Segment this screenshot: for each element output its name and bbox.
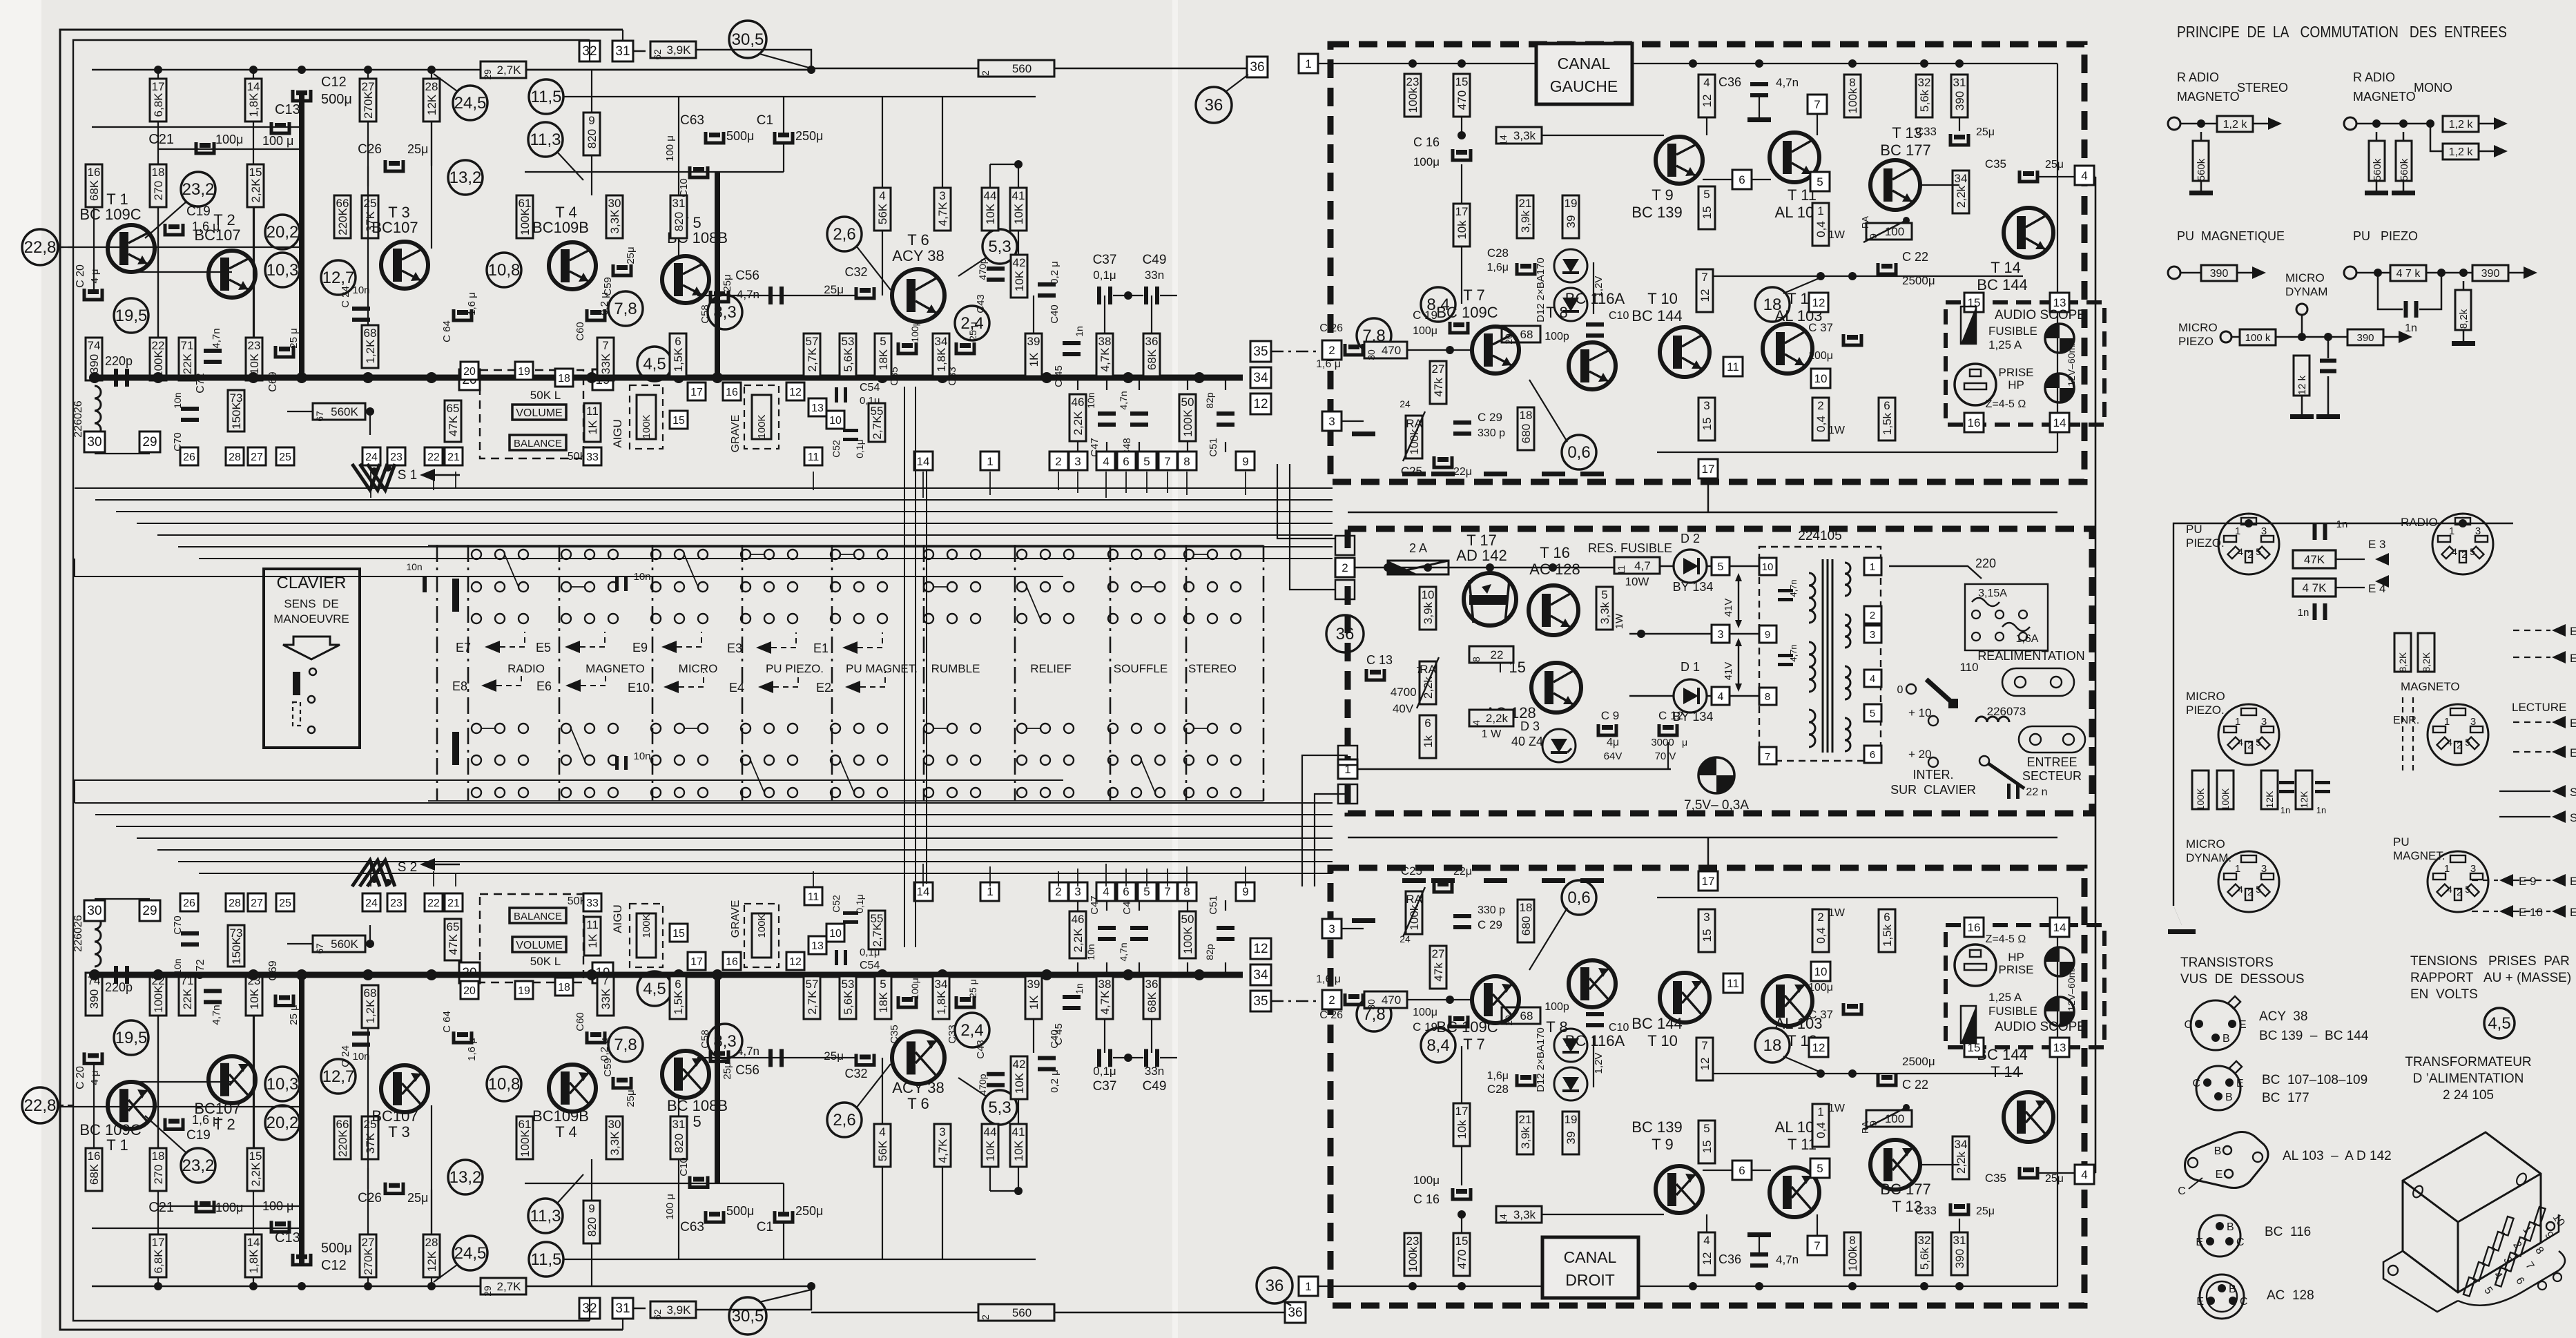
svg-text:T 2: T 2 (213, 1116, 235, 1133)
contact MICRO b1 c0 r1 (651, 755, 661, 765)
wire drop term 1533 top (1058, 472, 1059, 490)
svg-text:T 3: T 3 (388, 1123, 409, 1141)
wire contact link MICRO 1 (684, 728, 698, 729)
wire contact link MAGNETO 0 (571, 586, 585, 588)
svg-text:T 7: T 7 (1463, 287, 1484, 304)
wire C36 down (canal gauche) (1759, 97, 1760, 117)
svg-text:3,3k: 3,3k (1513, 129, 1536, 142)
terminal 13b (bottom) (808, 936, 826, 954)
contact RUMBLE b1 c1 r1 (947, 755, 957, 765)
wire col 367 (top) (253, 70, 254, 378)
cap C24 (top) (352, 307, 370, 311)
svg-text:C33: C33 (947, 1025, 958, 1044)
node 15-14 (canal droit) (1458, 1210, 1466, 1219)
svg-text:39: 39 (1565, 1132, 1578, 1145)
svg-text:MAGNETO: MAGNETO (2401, 680, 2460, 693)
svg-text:PRISE: PRISE (1998, 963, 2033, 976)
wire contact link MICRO 0 (684, 554, 698, 587)
wire E5 dash (580, 632, 605, 647)
svg-text:74: 74 (88, 339, 101, 352)
svg-text:4: 4 (879, 1125, 885, 1138)
node 67 top (366, 407, 374, 416)
svg-text:9: 9 (1242, 455, 1248, 468)
svg-text:C21: C21 (148, 1200, 174, 1215)
svg-text:39: 39 (1565, 215, 1578, 229)
wire 30,5 diag top (759, 54, 811, 68)
svg-text:CLAVIER: CLAVIER (277, 574, 347, 592)
icon key circle 3 (308, 726, 315, 733)
cap C21 100u (top) (196, 142, 214, 153)
contact PU MAGNET. b1 c0 r0 (831, 724, 840, 733)
pot RA9 100 (canal droit) (1866, 1110, 1912, 1127)
contact RELIEF b0 c1 r2 (1040, 614, 1050, 623)
svg-text:5,3: 5,3 (988, 237, 1011, 256)
circle 7,8 (canal droit) (1357, 997, 1391, 1031)
arrow E2 (845, 681, 860, 693)
svg-text:23: 23 (1406, 75, 1420, 88)
contact STEREO b0 c0 r1 (1184, 582, 1194, 592)
contact STEREO b1 c1 r2 (1208, 788, 1217, 797)
wire E1 dash (2513, 880, 2550, 881)
wire sockets frame top (2173, 523, 2513, 906)
terminal 6 row (bottom) (1117, 882, 1136, 901)
svg-text:23: 23 (248, 339, 261, 352)
pot GRAVE res (bottom) (752, 913, 771, 958)
contact MAGNETO b0 c1 r0 (585, 550, 594, 559)
svg-text:MAGNETO: MAGNETO (585, 662, 645, 675)
svg-text:56K: 56K (876, 203, 889, 224)
svg-text:C10: C10 (678, 178, 690, 197)
svg-text:PU MAGNET.: PU MAGNET. (846, 662, 918, 675)
svg-text:20: 20 (463, 985, 476, 997)
svg-text:2: 2 (1817, 399, 1823, 412)
pinout BC116 (2199, 1215, 2240, 1257)
wire rail2 (bottom) (92, 1228, 302, 1229)
svg-text:13,2: 13,2 (449, 1168, 482, 1187)
svg-text:C43: C43 (975, 294, 987, 313)
cap C49 (bottom) (1144, 1049, 1148, 1067)
svg-text:22 n: 22 n (2026, 786, 2047, 798)
wire drop term 1691 top (1167, 472, 1168, 493)
wire 8,2k (2463, 281, 2465, 290)
wire 2,6 diag (bottom) (856, 1064, 891, 1108)
svg-text:42: 42 (1013, 1058, 1026, 1071)
svg-text:B: B (2214, 1145, 2222, 1157)
audioscope box (canal gauche) (1946, 302, 2104, 425)
contact MAGNETO b1 c2 r1 (608, 755, 618, 765)
svg-text:270: 270 (152, 181, 165, 200)
contact PU MAGNET. b0 c1 r1 (854, 582, 864, 592)
wire top line y101 to 30,5 (526, 69, 811, 70)
wire col 437 thick (bottom) (299, 975, 304, 1265)
terminal 17 out (canal gauche) (1698, 459, 1718, 478)
svg-text:2: 2 (980, 1315, 991, 1320)
wire col 1135 (bottom) (783, 1223, 784, 1259)
wire 2,6 diag (top) (856, 246, 891, 290)
resistor 4 56K (bottom) (874, 1124, 891, 1167)
cap C10 (canal droit) (1586, 1012, 1604, 1016)
svg-text:100μ: 100μ (1808, 982, 1833, 993)
svg-text:0,1μ: 0,1μ (1093, 1065, 1116, 1078)
svg-text:2,6: 2,6 (833, 1111, 855, 1129)
svg-text:E6: E6 (2570, 746, 2576, 759)
svg-text:8: 8 (1183, 885, 1190, 898)
node rail bottom (154, 1282, 162, 1290)
contact MAGNETO b1 c0 r2 (561, 788, 571, 797)
node rail7 (canal droit) (1955, 1282, 1964, 1290)
svg-text:C21: C21 (148, 132, 174, 147)
svg-text:34: 34 (935, 978, 948, 991)
contact RADIO b1 c0 r1 (472, 755, 481, 765)
svg-text:1: 1 (1305, 57, 1311, 70)
svg-text:2: 2 (1817, 911, 1823, 924)
svg-text:RADIO: RADIO (507, 662, 545, 675)
resistor 68 1,2K (top) (362, 325, 378, 368)
svg-text:25μ: 25μ (625, 1089, 637, 1107)
contact SOUFFLE b0 c0 r1 (1108, 582, 1118, 592)
sel box psu (1965, 584, 2048, 650)
separator col 810 (559, 545, 561, 801)
circle 20,2 (bottom) (265, 1105, 300, 1140)
svg-text:25μ: 25μ (722, 274, 733, 291)
svg-text:3,3K: 3,3K (608, 209, 621, 234)
circle 30,5 top (729, 21, 766, 58)
svg-text:2,2k: 2,2k (1422, 676, 1435, 699)
terminal 6 mid (canal droit) (1732, 1161, 1752, 1180)
dashed border CANAL (canal gauche) (1330, 44, 2084, 482)
contact PU MAGNET. b0 c0 r1 (831, 582, 840, 592)
contact RELIEF b1 c1 r2 (1040, 788, 1050, 797)
svg-text:C 37: C 37 (1808, 1008, 1833, 1021)
contact RELIEF b0 c0 r1 (1017, 582, 1027, 592)
circle 19,5 (top) (114, 298, 148, 333)
wire 14 to T9 (canal gauche) (1542, 135, 1664, 136)
terminal 9 row (top) (1236, 452, 1255, 470)
terminal 7 tr (1759, 747, 1776, 764)
contact RUMBLE b0 c0 r1 (924, 582, 933, 592)
svg-text:1,2K: 1,2K (364, 999, 377, 1024)
svg-text:12: 12 (1812, 296, 1826, 309)
wire 4-T9 (canal droit) (1706, 1214, 1707, 1232)
resistor 23 10K (bottom) (246, 973, 262, 1016)
wire E7 dash (2513, 657, 2550, 658)
node midrail2 (canal droit) (1848, 1069, 1857, 1078)
wire col 1135b (bottom) (783, 1183, 784, 1212)
terminal 20r top (461, 362, 478, 380)
svg-text:100K: 100K (519, 207, 532, 235)
node 47k b (2459, 269, 2468, 277)
svg-text:5,6K: 5,6K (842, 990, 855, 1015)
svg-text:1n: 1n (1074, 983, 1085, 994)
transistor T1 BC109C (top) (108, 225, 155, 272)
arrow E4 (758, 681, 773, 693)
svg-text:14: 14 (1498, 135, 1509, 146)
svg-text:1,8K: 1,8K (935, 990, 948, 1015)
svg-text:ACY 38: ACY 38 (892, 247, 944, 264)
contact MAGNETO b0 c2 r2 (608, 614, 618, 623)
svg-text:100 k: 100 k (2245, 332, 2271, 344)
terminal 10 mid (canal gauche) (1811, 369, 1830, 388)
wire res col 368 (top) (253, 207, 255, 338)
contact SOUFFLE b1 c0 r1 (1108, 755, 1118, 765)
contact PU MAGNET. b1 c0 r2 (831, 788, 840, 797)
contact RUMBLE b1 c0 r1 (924, 755, 933, 765)
wire piezo drop (2248, 514, 2249, 523)
svg-text:2: 2 (1055, 455, 1061, 468)
res fusible 11 4,7 (1614, 557, 1660, 574)
cap C19 (canal gauche) (1450, 322, 1468, 333)
contact PU PIEZO. b1 c2 r2 (788, 788, 797, 797)
cap C64 (top) (454, 309, 472, 320)
pot GRAVE res (top) (752, 395, 771, 439)
svg-text:11,3: 11,3 (530, 130, 561, 149)
wire md drop (2301, 315, 2303, 337)
svg-text:19,5: 19,5 (115, 307, 148, 325)
svg-text:0,1μ: 0,1μ (1093, 269, 1116, 282)
contact PU MAGNET. b1 c2 r1 (878, 755, 887, 765)
svg-text:31: 31 (672, 1118, 686, 1131)
svg-text:25μ: 25μ (824, 283, 844, 296)
wire trunk left bottom (75, 780, 1063, 803)
svg-text:50K L: 50K L (530, 955, 561, 968)
wire E3 dash (771, 632, 796, 648)
wire drop term 1631 top (1125, 472, 1127, 493)
resistor 65 47K top (445, 400, 461, 442)
svg-text:11: 11 (808, 891, 820, 903)
svg-text:15: 15 (1701, 206, 1714, 220)
svg-text:25 μ: 25 μ (288, 328, 300, 349)
svg-text:1,2 k: 1,2 k (2449, 146, 2474, 158)
contact PU PIEZO. b0 c0 r2 (741, 614, 750, 623)
contact RADIO b0 c2 r1 (519, 582, 528, 592)
wire bundle bottom 0 (75, 802, 1333, 804)
text E5 arrow (2552, 716, 2566, 728)
svg-text:3: 3 (1718, 629, 1724, 641)
svg-text:4,7n: 4,7n (737, 1045, 759, 1058)
resistor 5 15 (canal droit) (1698, 1121, 1715, 1163)
node 30,5 top (807, 66, 815, 74)
svg-text:8,4: 8,4 (1426, 1036, 1449, 1055)
svg-text:25μ: 25μ (1976, 1205, 1995, 1217)
circle 5,3 (bottom) (982, 1090, 1017, 1125)
svg-text:4: 4 (2238, 737, 2243, 748)
svg-text:18: 18 (558, 982, 570, 993)
svg-text:150K: 150K (230, 936, 243, 964)
contact PU MAGNET. b1 c2 r0 (878, 724, 887, 733)
svg-text:25μ: 25μ (824, 1049, 844, 1063)
wire contact link RUMBLE 1 (933, 728, 947, 729)
circle 7,8 (top) (608, 291, 643, 326)
resistor 42 10K (top) (1011, 255, 1027, 298)
svg-text:3: 3 (2261, 525, 2267, 537)
contact RUMBLE b0 c2 r1 (971, 582, 980, 592)
wire drop term 1178 top (813, 472, 814, 490)
svg-text:C49: C49 (1143, 1079, 1167, 1094)
resistor 21 3,9k (canal droit) (1517, 1112, 1533, 1154)
wire 1668 to upper net top (1151, 295, 1152, 333)
terminal 23r bottom (387, 893, 405, 911)
svg-text:E 9: E 9 (2519, 875, 2537, 888)
svg-text:26: 26 (183, 898, 195, 909)
switch S2 (352, 860, 380, 886)
node psu rail (1384, 563, 1392, 572)
svg-text:5: 5 (2256, 546, 2261, 557)
resistor 28 12K (bottom) (423, 1234, 440, 1277)
wire 35 dashdot top (1271, 351, 1319, 352)
res 47K sock b (2293, 579, 2336, 597)
resistor 57 2,7K busrow bottom (804, 976, 820, 1019)
wire col 983b (bottom) (678, 1098, 679, 1116)
svg-text:23: 23 (390, 898, 403, 909)
text E7 arrow (2552, 651, 2566, 663)
svg-text:15: 15 (249, 1150, 262, 1163)
svg-text:4,7K: 4,7K (1098, 990, 1112, 1015)
svg-text:15: 15 (1701, 1141, 1714, 1154)
contact PU PIEZO. b0 c0 r0 (741, 550, 750, 559)
svg-text:2,2K: 2,2K (249, 1162, 262, 1187)
contact PU MAGNET. b0 c0 r2 (831, 614, 840, 623)
wire col 367 (bottom) (253, 975, 254, 1286)
wire 22,8 dash (bottom) (57, 1106, 107, 1107)
contact RUMBLE b0 c0 r0 (924, 550, 933, 559)
svg-text:4,7n: 4,7n (211, 328, 222, 348)
svg-text:47K: 47K (447, 933, 460, 955)
contact RELIEF b0 c0 r0 (1017, 550, 1027, 559)
wire canal left col a (1277, 464, 1335, 539)
node rail3 (canal gauche) (1689, 59, 1697, 68)
svg-text:E 3: E 3 (2368, 538, 2386, 551)
transistor T3 BC107 (top) (381, 242, 428, 289)
svg-text:1n: 1n (2280, 805, 2290, 815)
resistor 61 100K (bottom) (516, 1116, 533, 1159)
svg-text:4: 4 (2081, 169, 2087, 182)
svg-text:10n: 10n (352, 284, 369, 296)
terminal 30 bottom (84, 900, 105, 921)
resistor 50 100K (bottom) (1179, 911, 1196, 958)
svg-text:CANAL: CANAL (1564, 1248, 1617, 1266)
svg-text:44: 44 (984, 189, 997, 202)
svg-text:RAPPORT AU + (MASSE): RAPPORT AU + (MASSE) (2410, 971, 2571, 985)
contact STEREO b1 c2 r2 (1231, 788, 1241, 797)
contact RELIEF b0 c0 r2 (1017, 614, 1027, 623)
svg-text:10n: 10n (172, 958, 183, 974)
svg-text:1W: 1W (1828, 229, 1846, 241)
contact RADIO b1 c2 r1 (519, 755, 528, 765)
svg-text:12: 12 (1698, 289, 1712, 302)
svg-text:4 μ: 4 μ (89, 1070, 101, 1085)
wire crosslink a (904, 387, 905, 947)
dash cluster magneto (2402, 697, 2403, 773)
wire C35-4 (canal gauche) (2037, 176, 2074, 177)
svg-text:13: 13 (2053, 1041, 2066, 1054)
wire col 625 mid (top) (431, 122, 432, 249)
wire contact link STEREO 1 (1194, 728, 1208, 729)
terminal 17 out (canal droit) (1698, 871, 1718, 891)
wire 4-8 (1730, 695, 1759, 697)
svg-text:3: 3 (2470, 863, 2476, 875)
wire 1n loop (2378, 273, 2403, 309)
svg-text:1: 1 (1817, 204, 1823, 217)
contact STEREO b1 c0 r0 (1184, 724, 1194, 733)
svg-text:19: 19 (1565, 1113, 1578, 1126)
svg-text:PU: PU (2393, 835, 2410, 849)
contact RUMBLE b1 c1 r0 (947, 724, 957, 733)
svg-text:4: 4 (2447, 884, 2452, 895)
svg-text:100K: 100K (756, 414, 768, 438)
resistor 27 47k (canal gauche) (1430, 361, 1446, 404)
svg-text:10: 10 (1814, 965, 1828, 978)
cap C48 (top) (1130, 411, 1148, 416)
svg-text:22,8: 22,8 (24, 238, 57, 257)
svg-text:C19: C19 (186, 1128, 211, 1143)
node rail (canal gauche) (1408, 59, 1417, 68)
svg-text:C54: C54 (860, 382, 880, 394)
svg-text:12: 12 (1812, 1041, 1826, 1054)
svg-text:3,9k: 3,9k (1519, 1126, 1532, 1149)
svg-text:7,8: 7,8 (614, 300, 637, 318)
arrow 41V b (1738, 642, 1739, 688)
prise plates (canal gauche) (1970, 369, 1981, 376)
terminal 2 row (top) (1049, 452, 1068, 470)
svg-text:10,8: 10,8 (488, 1075, 521, 1094)
wire C35-4 (canal droit) (2037, 1172, 2074, 1174)
svg-text:3,3k: 3,3k (1513, 1208, 1536, 1221)
res 390 b (2472, 265, 2508, 281)
svg-text:17: 17 (690, 387, 703, 398)
contact PU PIEZO. b1 c0 r2 (741, 788, 750, 797)
wire 560-line top (811, 68, 1247, 69)
svg-text:T 1: T 1 (106, 1136, 128, 1154)
svg-text:680: 680 (1520, 916, 1533, 935)
wire 15-14 (canal gauche) (1461, 117, 1462, 135)
contact RADIO b1 c0 r0 (472, 724, 481, 733)
transistor T12 AL103 (canal gauche) (1763, 324, 1812, 374)
wire drop 57 top (811, 376, 813, 378)
contact SOUFFLE b0 c0 r2 (1108, 614, 1118, 623)
svg-text:5: 5 (1817, 1162, 1823, 1175)
resistor 4 12 (canal gauche) (1698, 75, 1715, 117)
contact RUMBLE b1 c2 r1 (971, 755, 980, 765)
circle 4,5 (bottom) (637, 971, 672, 1006)
res 560k a (2193, 141, 2209, 181)
wire col 857 (bottom) (591, 1243, 592, 1286)
svg-text:HP: HP (2008, 378, 2024, 391)
separator col 678 (467, 545, 469, 801)
resistor 29 2,7K bottom (481, 1278, 526, 1295)
svg-text:2,7K: 2,7K (806, 990, 819, 1015)
wire drop 1775 (top) (1225, 378, 1226, 390)
arrow E10 (664, 681, 679, 693)
node mp2 (2324, 333, 2332, 341)
res 5 3,3k 1W psu (1596, 587, 1613, 630)
contact STEREO b1 c2 r1 (1231, 755, 1241, 765)
svg-text:MICRO: MICRO (2285, 271, 2325, 284)
contact RELIEF b0 c1 r0 (1040, 550, 1050, 559)
cap 1n pz (2404, 301, 2408, 318)
wire rail 140 (top) (564, 96, 1036, 97)
terminal 21r top (445, 447, 463, 465)
wire col 983b (top) (678, 238, 679, 256)
box BALANCE bottom (510, 908, 566, 923)
cap C70 top (181, 407, 199, 411)
svg-text:2: 2 (1328, 344, 1335, 357)
svg-text:2,7K: 2,7K (806, 347, 819, 372)
svg-text:33n: 33n (1145, 1065, 1164, 1078)
wire T13-line (canal gauche) (1920, 184, 1959, 186)
svg-text:T 9: T 9 (1652, 1136, 1673, 1153)
svg-text:3: 3 (1328, 415, 1335, 428)
fusible sym (canal gauche) (1961, 307, 1976, 344)
